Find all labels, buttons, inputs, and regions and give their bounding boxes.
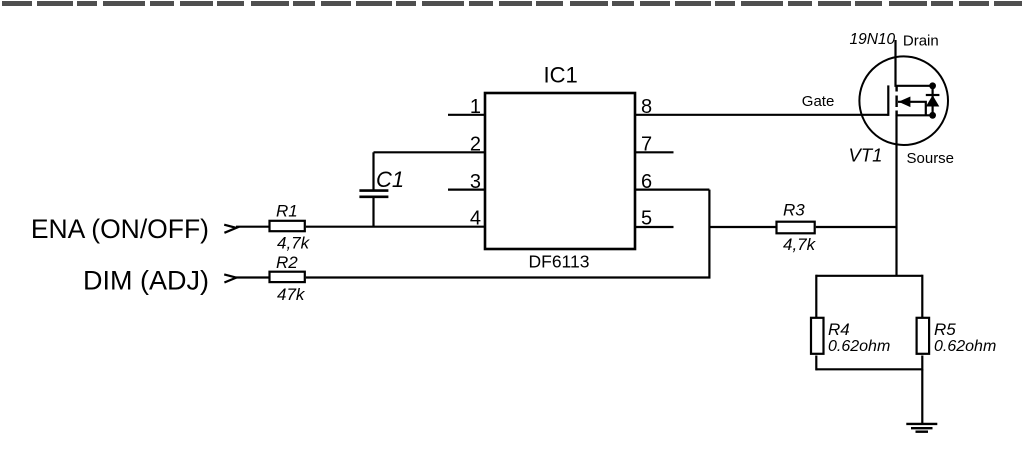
svg-text:DIM (ADJ): DIM (ADJ) [83,266,209,296]
wire rail to R5 [921,275,923,317]
svg-text:R5: R5 [934,320,956,339]
svg-text:5: 5 [641,208,652,230]
svg-text:4: 4 [470,208,481,230]
pin 8 (wire to gate) [635,114,888,116]
svg-text:Sourse: Sourse [907,150,955,167]
substrate arrow line [898,102,926,116]
svg-text:IC1: IC1 [544,63,578,88]
junction dot drain [929,82,936,89]
svg-text:1: 1 [470,96,481,118]
wire top rail R4/R5 [816,275,922,277]
wire to ground [921,369,923,423]
mosfet body circle [859,56,948,145]
gate bar [887,85,889,116]
wire node to R3 [709,226,775,228]
capacitor C1 [359,152,388,226]
svg-text:2: 2 [470,133,481,155]
svg-text:R4: R4 [828,320,850,339]
wire R2 to pin6 node [306,190,710,278]
wire R3 to source line [816,226,897,228]
resistor R5 [917,318,930,354]
pin 1 [448,114,485,116]
svg-text:3: 3 [470,171,481,193]
svg-text:R1: R1 [276,202,298,221]
resistor R4 [811,318,824,354]
body diode triangle [926,95,939,106]
input arrow DIM [224,274,236,282]
IC IC1 body [485,93,635,249]
svg-text:7: 7 [641,133,652,155]
pin 7 [635,151,674,153]
resistor R1 [270,221,305,231]
svg-text:4,7k: 4,7k [783,235,817,254]
wire bottom rail [816,368,922,370]
wire R4 to bottom rail [815,356,817,371]
svg-text:DF6113: DF6113 [529,252,590,272]
svg-text:0.62ohm: 0.62ohm [934,338,996,355]
svg-text:R3: R3 [783,201,805,220]
wire R5 to bottom rail [921,356,923,371]
wire source line (VT1 source to rail) [895,115,897,275]
svg-text:8: 8 [641,96,652,118]
svg-text:6: 6 [641,171,652,193]
channel dashed bar [895,86,897,116]
wire DIM input to R2 [236,276,269,278]
wire rail to R4 [815,275,817,317]
svg-text:R2: R2 [276,253,298,272]
pin 3 [448,189,485,191]
source tap [897,114,933,116]
svg-text:4,7k: 4,7k [277,234,311,253]
transistor VT1 (MOSFET) [859,40,948,145]
svg-text:C1: C1 [376,167,404,192]
pin 6 (wire to node) [635,189,709,191]
resistor R2 [270,272,305,282]
wire ENA input to R1 [236,226,269,228]
svg-text:19N10: 19N10 [850,31,896,48]
pin 2 (wire to C1) [374,151,486,153]
svg-text:Gate: Gate [802,93,835,110]
svg-text:0.62ohm: 0.62ohm [828,338,890,355]
arrowhead [899,97,911,108]
body diode vertical [931,86,933,116]
svg-text:47k: 47k [277,285,306,304]
junction dot source [929,112,936,119]
wire R1 to IC pin 4 [306,226,485,228]
drain lead [896,40,933,86]
body diode bar [926,94,940,96]
svg-text:Drain: Drain [903,33,939,50]
resistor R3 [777,222,815,234]
svg-text:VT1: VT1 [849,145,883,166]
pin 5 [635,226,674,228]
svg-text:ENA (ON/OFF): ENA (ON/OFF) [31,214,209,244]
ground [906,424,937,432]
input arrow ENA [224,225,236,233]
